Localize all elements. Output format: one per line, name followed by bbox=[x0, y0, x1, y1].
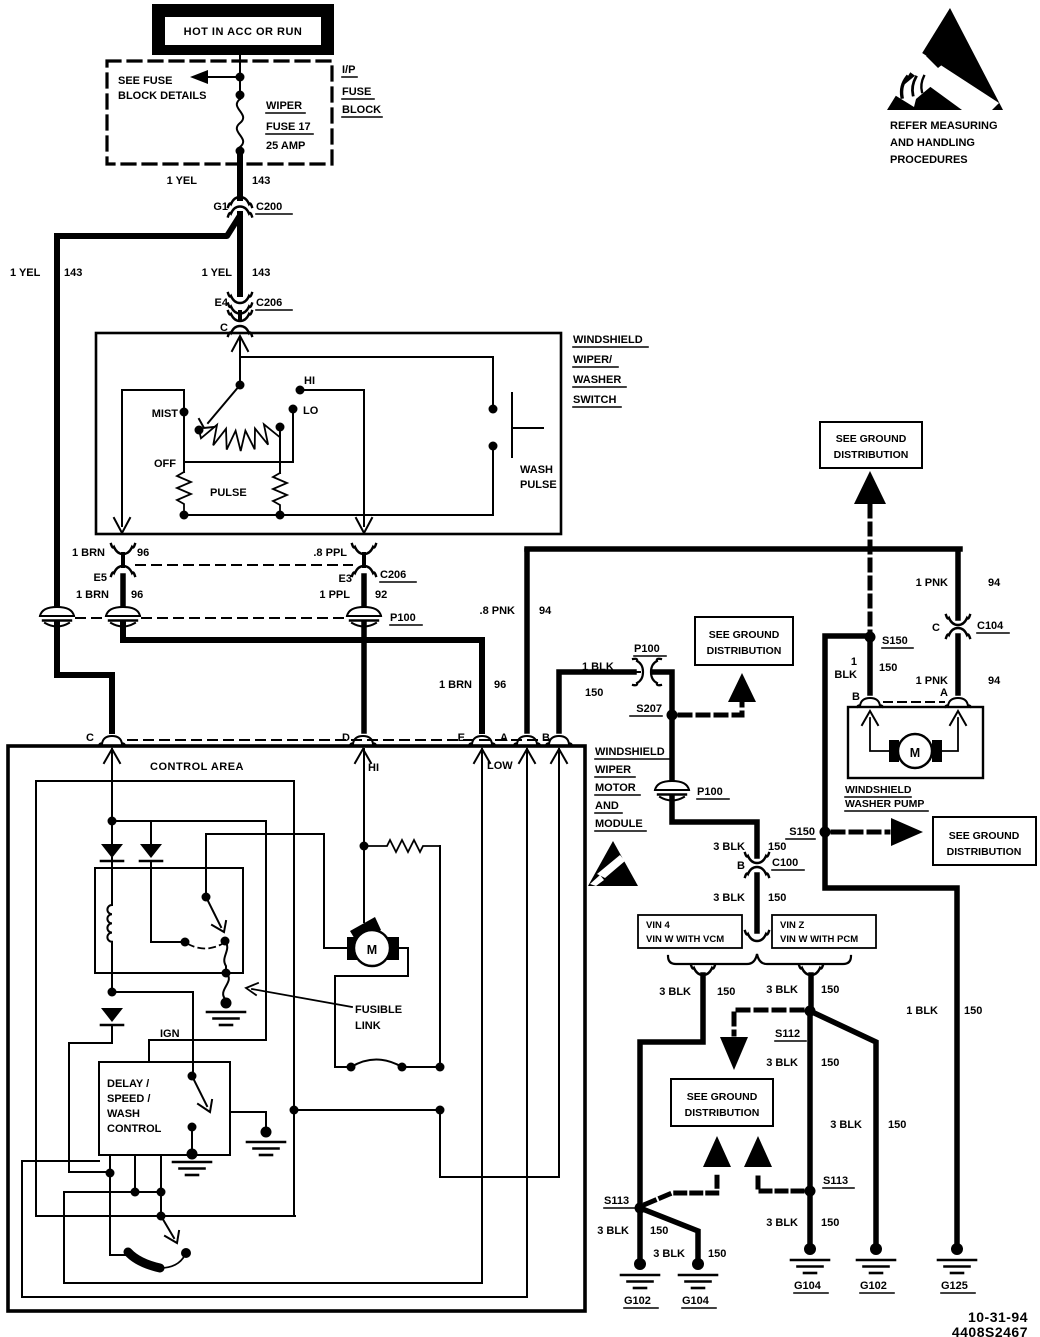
svg-text:LINK: LINK bbox=[355, 1020, 381, 1032]
svg-text:C206: C206 bbox=[380, 569, 406, 581]
svg-text:150: 150 bbox=[768, 892, 786, 904]
svg-text:1 YEL: 1 YEL bbox=[167, 175, 198, 187]
ESD warning symbol small bbox=[588, 841, 638, 886]
svg-text:G104: G104 bbox=[682, 1295, 710, 1307]
svg-text:IGN: IGN bbox=[160, 1028, 180, 1040]
wire S113 left diagonal to G104 bbox=[640, 1208, 698, 1258]
svg-text:WASHER: WASHER bbox=[573, 374, 621, 386]
delay switch contact bbox=[188, 1123, 197, 1132]
svg-text:150: 150 bbox=[964, 1005, 982, 1017]
node S112 bbox=[805, 1006, 816, 1017]
wire motor right brush loop bbox=[335, 948, 408, 1067]
svg-text:3 BLK: 3 BLK bbox=[653, 1248, 685, 1260]
dashed wire S113 to up arrow bbox=[758, 1171, 802, 1191]
VIN 4 box bbox=[638, 915, 742, 948]
wire to wash switch bbox=[240, 357, 493, 409]
svg-text:G102: G102 bbox=[624, 1295, 651, 1307]
dashed wire to S150 bbox=[868, 506, 873, 634]
dashed contact travel arc bbox=[188, 944, 222, 949]
wire S150 to pump B bbox=[867, 637, 873, 693]
svg-text:FUSIBLE: FUSIBLE bbox=[355, 1004, 402, 1016]
svg-text:3 BLK: 3 BLK bbox=[597, 1225, 629, 1237]
wire 1 PPL 92 bbox=[361, 576, 367, 607]
relay box bbox=[95, 868, 243, 973]
svg-text:150: 150 bbox=[821, 1217, 839, 1229]
svg-text:P100: P100 bbox=[390, 612, 416, 624]
wire big loop bbox=[293, 781, 295, 1216]
connector C200 terminal G1 bbox=[213, 197, 292, 217]
wire MIST to OFF bbox=[183, 412, 185, 472]
pump terminal B bbox=[857, 698, 883, 707]
wire HI to exit bbox=[300, 390, 364, 526]
wire S207 down bbox=[669, 715, 675, 783]
svg-text:3 BLK: 3 BLK bbox=[830, 1119, 862, 1131]
svg-text:CONTROL AREA: CONTROL AREA bbox=[150, 761, 244, 773]
ground G104 right bbox=[791, 1243, 829, 1293]
grommet P100 BRN wire bbox=[106, 607, 140, 627]
svg-text:OFF: OFF bbox=[154, 458, 176, 470]
svg-text:D: D bbox=[342, 732, 350, 744]
node S150 lower bbox=[820, 827, 831, 838]
wire diode D3 to delay stub bbox=[69, 1025, 112, 1172]
svg-text:DISTRIBUTION: DISTRIBUTION bbox=[685, 1107, 760, 1119]
svg-text:10-31-94: 10-31-94 bbox=[968, 1309, 1028, 1325]
wire E LOW return bbox=[64, 749, 482, 1283]
wire LO to OFF bus bbox=[292, 409, 294, 462]
node S150 bbox=[865, 632, 876, 643]
wire D2 to relay contact bbox=[151, 861, 181, 942]
svg-text:WINDSHIELD: WINDSHIELD bbox=[573, 334, 643, 346]
hook VIN4 wire bbox=[691, 965, 715, 975]
wash pulse actuator bbox=[512, 393, 543, 457]
svg-text:150: 150 bbox=[708, 1248, 726, 1260]
svg-text:3 BLK: 3 BLK bbox=[766, 984, 798, 996]
svg-text:WINDSHIELD: WINDSHIELD bbox=[595, 746, 665, 758]
svg-text:SEE GROUND: SEE GROUND bbox=[949, 830, 1020, 842]
connector E5 bbox=[94, 544, 135, 584]
terminal C bbox=[99, 736, 125, 745]
svg-text:96: 96 bbox=[137, 547, 149, 559]
node HI bbox=[296, 386, 305, 395]
svg-text:WINDSHIELD: WINDSHIELD bbox=[845, 784, 912, 796]
wire C branch to terminal C bbox=[57, 624, 112, 731]
pump feed arrows bbox=[862, 711, 878, 725]
wire delay to ground right bbox=[230, 1112, 266, 1132]
wire 1 PNK 94 lower bbox=[955, 636, 961, 693]
wash cam lobe bbox=[128, 1252, 160, 1268]
wire C feed inside control area bbox=[111, 749, 113, 844]
park switch arc bbox=[351, 1060, 402, 1068]
svg-text:FUSE 17: FUSE 17 bbox=[266, 121, 311, 133]
node wash switch contact bbox=[181, 1248, 191, 1258]
svg-text:M: M bbox=[367, 943, 377, 957]
grommet P100 PPL wire bbox=[347, 607, 381, 627]
svg-text:HI: HI bbox=[304, 375, 315, 387]
svg-text:B: B bbox=[737, 860, 745, 872]
wash pulse switch contacts bbox=[489, 405, 498, 414]
wire 1 YEL 143 from fuse block bbox=[237, 151, 243, 198]
svg-text:VIN W WITH PCM: VIN W WITH PCM bbox=[780, 934, 858, 945]
svg-text:C104: C104 bbox=[977, 620, 1004, 632]
dashed connector face line C-B bbox=[128, 739, 550, 741]
svg-text:94: 94 bbox=[539, 605, 552, 617]
svg-text:LOW: LOW bbox=[487, 760, 513, 772]
exit arrow HI wire bbox=[356, 518, 372, 533]
dashed wire S112 to ground arrow bbox=[734, 1010, 802, 1034]
svg-text:BLK: BLK bbox=[834, 669, 857, 681]
svg-text:WIPER/: WIPER/ bbox=[573, 354, 612, 366]
svg-text:150: 150 bbox=[768, 841, 786, 853]
node HI-resistor junction bbox=[360, 842, 369, 851]
up arrow right bbox=[744, 1136, 772, 1167]
terminal D bbox=[350, 736, 376, 745]
node park contact right bbox=[398, 1063, 407, 1072]
terminal B bbox=[546, 736, 572, 745]
svg-text:DISTRIBUTION: DISTRIBUTION bbox=[707, 645, 782, 657]
label FUSIBLE LINK with leader arrow bbox=[246, 983, 402, 1032]
svg-text:SPEED /: SPEED / bbox=[107, 1093, 150, 1105]
wire contact to ground bbox=[191, 1127, 193, 1154]
terminal arrow A inside bbox=[519, 749, 535, 763]
diode D2 bbox=[140, 821, 162, 861]
svg-text:1 YEL: 1 YEL bbox=[10, 267, 41, 279]
wire 3 BLK 150 below C100 bbox=[754, 875, 760, 931]
svg-text:WASH: WASH bbox=[520, 464, 553, 476]
exit arrow MIST bbox=[114, 518, 130, 533]
svg-text:C200: C200 bbox=[256, 201, 282, 213]
svg-text:P100: P100 bbox=[697, 786, 723, 798]
dashed connector line E5-E3 bbox=[136, 564, 352, 566]
svg-text:M: M bbox=[910, 746, 920, 760]
svg-text:G1: G1 bbox=[213, 201, 228, 213]
svg-text:MIST: MIST bbox=[152, 408, 179, 420]
wire S150 to BLK down branch bbox=[825, 636, 957, 1243]
svg-text:B: B bbox=[852, 691, 860, 703]
connector C104 bbox=[932, 551, 1009, 638]
junction dot bbox=[236, 73, 245, 82]
svg-text:1 BRN: 1 BRN bbox=[439, 679, 472, 691]
grommet P100 left wire bbox=[40, 607, 74, 627]
svg-text:96: 96 bbox=[131, 589, 143, 601]
wire 1 BRN 96 to terminal E bbox=[123, 624, 482, 731]
label I/P FUSE BLOCK bbox=[342, 64, 382, 117]
svg-text:E5: E5 bbox=[94, 572, 107, 584]
svg-text:1 PNK: 1 PNK bbox=[916, 675, 948, 687]
ground G102 right bbox=[857, 1243, 895, 1293]
svg-text:S207: S207 bbox=[636, 703, 662, 715]
dashed wire S207 to ground arrow bbox=[680, 704, 742, 715]
up arrow left bbox=[703, 1136, 731, 1167]
OFF bus bbox=[184, 461, 293, 463]
diode D1 bbox=[101, 844, 123, 868]
relay coil bbox=[107, 861, 112, 992]
svg-text:HOT IN ACC OR RUN: HOT IN ACC OR RUN bbox=[184, 26, 303, 38]
svg-text:143: 143 bbox=[64, 267, 82, 279]
svg-text:FUSE: FUSE bbox=[342, 86, 371, 98]
svg-text:G125: G125 bbox=[941, 1280, 968, 1292]
VIN Z box bbox=[772, 915, 876, 948]
svg-text:I/P: I/P bbox=[342, 64, 355, 76]
switch side terminal C bbox=[220, 311, 252, 336]
svg-text:150: 150 bbox=[888, 1119, 906, 1131]
svg-text:SEE GROUND: SEE GROUND bbox=[836, 433, 907, 445]
wire from HOT bus into fuse bbox=[239, 55, 241, 99]
svg-text:CONTROL: CONTROL bbox=[107, 1123, 162, 1135]
node stub 3 ign junction bbox=[106, 1169, 115, 1178]
diode D3 bbox=[101, 1008, 123, 1025]
svg-text:96: 96 bbox=[494, 679, 506, 691]
dashed wire S150 to ground distribution right bbox=[833, 830, 888, 835]
brace bbox=[668, 954, 851, 964]
svg-text:94: 94 bbox=[988, 577, 1001, 589]
dashed grommet line bbox=[76, 617, 104, 619]
wire resistor leg down bbox=[439, 846, 441, 1067]
svg-text:1 BRN: 1 BRN bbox=[76, 589, 109, 601]
relay switch arm bbox=[206, 897, 226, 932]
svg-text:S113: S113 bbox=[604, 1195, 629, 1207]
svg-text:150: 150 bbox=[717, 986, 735, 998]
wire to S207 bbox=[653, 672, 672, 715]
delay box stub 3 to cam bbox=[110, 1155, 126, 1255]
terminal A bbox=[514, 736, 540, 745]
node relay contact right bbox=[221, 937, 230, 946]
ground fusible link bbox=[207, 998, 245, 1026]
node relay contact left bbox=[181, 938, 190, 947]
windshield wiper/washer switch box bbox=[96, 333, 561, 534]
svg-text:.8 PNK: .8 PNK bbox=[480, 605, 516, 617]
node wash switch pivot bbox=[157, 1212, 166, 1221]
connector C100 terminal B bbox=[737, 853, 804, 877]
delay control box bbox=[99, 1062, 230, 1155]
wiper motor M bbox=[347, 846, 399, 966]
svg-text:G104: G104 bbox=[794, 1280, 822, 1292]
dashed pump connector face bbox=[884, 701, 944, 703]
svg-text:150: 150 bbox=[879, 662, 897, 674]
svg-text:PROCEDURES: PROCEDURES bbox=[890, 154, 968, 166]
ground G125 bbox=[938, 1243, 976, 1293]
see ground distribution box bottom bbox=[671, 1079, 773, 1126]
hook VINZ wire bbox=[799, 965, 823, 975]
wire 3 BLK 150 VIN4 to S113 bbox=[640, 975, 703, 1205]
resistor pulse right bbox=[279, 427, 281, 473]
svg-text:B: B bbox=[542, 732, 550, 744]
svg-text:P100: P100 bbox=[634, 643, 660, 655]
see ground distribution box S207 bbox=[695, 617, 793, 665]
node below relay bbox=[108, 988, 117, 997]
svg-text:REFER MEASURING: REFER MEASURING bbox=[890, 120, 998, 132]
fuse WIPER FUSE 17 25 AMP bbox=[237, 99, 243, 147]
svg-text:A: A bbox=[500, 732, 508, 744]
wire 1 BRN 96 bbox=[120, 576, 126, 607]
washer pump motor bbox=[889, 734, 942, 768]
svg-text:SWITCH: SWITCH bbox=[573, 394, 616, 406]
svg-text:A: A bbox=[940, 687, 948, 699]
I/P fuse block dashed box bbox=[107, 61, 332, 164]
svg-text:DELAY /: DELAY / bbox=[107, 1078, 149, 1090]
svg-text:3 BLK: 3 BLK bbox=[659, 986, 691, 998]
see ground distribution box right bbox=[933, 817, 1036, 865]
pump terminal A bbox=[945, 698, 971, 707]
wire S112 to S113 bbox=[807, 1011, 813, 1188]
delay box stub 1 bbox=[134, 1155, 136, 1192]
terminal arrow D inside bbox=[355, 749, 371, 763]
node C feed junction bbox=[108, 817, 117, 826]
node MIST bbox=[180, 408, 189, 417]
svg-text:SEE GROUND: SEE GROUND bbox=[709, 629, 780, 641]
svg-text:WASHER PUMP: WASHER PUMP bbox=[845, 798, 924, 810]
svg-text:VIN W WITH VCM: VIN W WITH VCM bbox=[646, 934, 724, 945]
svg-text:C: C bbox=[932, 622, 940, 634]
wire S113 left to G102 bbox=[637, 1208, 643, 1258]
node LO bbox=[289, 405, 298, 414]
svg-text:150: 150 bbox=[821, 1057, 839, 1069]
wire B terminal loop bbox=[440, 749, 559, 1177]
connector P100 inline bbox=[633, 659, 661, 686]
wire 3 BLK 150 VINZ to S112 bbox=[808, 975, 814, 1008]
wire D HI feed bbox=[363, 749, 365, 846]
resistor shunt bbox=[364, 840, 440, 852]
svg-text:E3: E3 bbox=[339, 573, 352, 585]
bottom bus of switch bbox=[184, 514, 493, 516]
node stub 2 bbox=[157, 1188, 166, 1197]
svg-text:1 PNK: 1 PNK bbox=[916, 577, 948, 589]
wire A terminal to delay box bbox=[22, 749, 527, 1297]
dashed wire S113 left to up arrow bbox=[646, 1171, 717, 1204]
ground delay box bbox=[173, 1149, 211, 1176]
arrow to fuse block details bbox=[190, 70, 240, 84]
node left loop junction bbox=[290, 1106, 299, 1115]
node wiper contact bbox=[195, 426, 204, 435]
arrow up to ground distribution bbox=[854, 471, 886, 504]
wire 3 BLK 150 to C100 bbox=[672, 798, 757, 856]
svg-text:92: 92 bbox=[375, 589, 387, 601]
svg-text:1 BRN: 1 BRN bbox=[72, 547, 105, 559]
svg-text:BLOCK: BLOCK bbox=[342, 104, 381, 116]
fusible link wire bbox=[224, 941, 227, 973]
delay box stub 2 bbox=[160, 1155, 162, 1216]
svg-text:S150: S150 bbox=[882, 635, 908, 647]
node S113 left bbox=[635, 1203, 646, 1214]
wire 1 PPL to terminal D bbox=[361, 624, 367, 731]
svg-text:WIPER: WIPER bbox=[266, 100, 302, 112]
svg-text:SEE GROUND: SEE GROUND bbox=[687, 1091, 758, 1103]
svg-text:HI: HI bbox=[368, 762, 379, 774]
svg-text:S112: S112 bbox=[775, 1028, 800, 1040]
svg-text:E: E bbox=[458, 732, 465, 744]
svg-text:AND HANDLING: AND HANDLING bbox=[890, 137, 975, 149]
svg-text:.8 PPL: .8 PPL bbox=[313, 547, 347, 559]
switch feed wire with up arrow bbox=[232, 336, 248, 385]
svg-text:94: 94 bbox=[988, 675, 1001, 687]
node on relay box edge bbox=[222, 969, 231, 978]
svg-text:SEE FUSE: SEE FUSE bbox=[118, 75, 172, 87]
svg-text:WIPER: WIPER bbox=[595, 764, 631, 776]
node track end bbox=[276, 423, 285, 432]
ESD warning symbol large bbox=[887, 8, 1003, 110]
svg-text:WASH: WASH bbox=[107, 1108, 140, 1120]
terminal E bbox=[469, 736, 495, 745]
delay switch arm bbox=[192, 1076, 212, 1112]
svg-text:E4: E4 bbox=[215, 297, 229, 309]
grommet P100 module bbox=[655, 781, 689, 801]
rheostat track MIST-OFF bbox=[199, 424, 280, 451]
wire 1 YEL 143 to C206 bbox=[237, 214, 243, 294]
resistor pulse left bbox=[177, 472, 191, 515]
wire PNK bus top bbox=[527, 546, 960, 552]
svg-text:MOTOR: MOTOR bbox=[595, 782, 636, 794]
svg-text:143: 143 bbox=[252, 175, 270, 187]
control area box bbox=[8, 746, 585, 1311]
terminal arrow C inside bbox=[104, 749, 120, 763]
svg-text:C206: C206 bbox=[256, 297, 282, 309]
node relay common bbox=[202, 893, 211, 902]
svg-text:150: 150 bbox=[650, 1225, 668, 1237]
node stub 1 bbox=[131, 1188, 140, 1197]
svg-text:150: 150 bbox=[821, 984, 839, 996]
label WINDSHIELD WIPER/ WASHER SWITCH bbox=[573, 334, 648, 407]
svg-text:3 BLK: 3 BLK bbox=[713, 841, 745, 853]
connector E3 C206 bbox=[339, 544, 416, 585]
ground G104 left bbox=[679, 1258, 717, 1308]
svg-text:3 BLK: 3 BLK bbox=[713, 892, 745, 904]
svg-text:3 BLK: 3 BLK bbox=[766, 1217, 798, 1229]
svg-text:143: 143 bbox=[252, 267, 270, 279]
wire S113 right to G104 bbox=[807, 1191, 813, 1243]
wire 1 BLK 150 to terminal B bbox=[559, 672, 634, 731]
svg-text:S113: S113 bbox=[823, 1175, 848, 1187]
delay switch common bbox=[188, 1072, 197, 1081]
svg-text:3 BLK: 3 BLK bbox=[766, 1057, 798, 1069]
svg-text:DISTRIBUTION: DISTRIBUTION bbox=[834, 449, 909, 461]
svg-text:1 BLK: 1 BLK bbox=[582, 661, 614, 673]
node S113 right bbox=[805, 1186, 816, 1197]
fusible link bbox=[223, 973, 229, 1000]
ground G102 left bbox=[621, 1258, 659, 1308]
label WINDSHIELD WASHER PUMP bbox=[845, 784, 928, 811]
wash switch arm bbox=[161, 1216, 179, 1243]
svg-text:1 BLK: 1 BLK bbox=[906, 1005, 938, 1017]
wire MIST to exit bbox=[122, 390, 184, 526]
power label box: HOT IN ACC OR RUN bbox=[152, 4, 334, 55]
wire to delay switch bbox=[112, 992, 193, 1076]
terminal arrow E inside bbox=[474, 749, 490, 763]
svg-text:1 PPL: 1 PPL bbox=[319, 589, 350, 601]
wire relay feed from motor bus bbox=[206, 834, 348, 948]
node crossover bbox=[436, 1106, 445, 1115]
washer pump box bbox=[848, 707, 983, 778]
cam follower curve bbox=[160, 1255, 185, 1268]
wire 1 BLK 150 into S207 bbox=[634, 671, 640, 673]
wire ignition branch bbox=[112, 821, 266, 1062]
svg-text:VIN 4: VIN 4 bbox=[646, 920, 670, 931]
ground mid bbox=[247, 1127, 285, 1156]
svg-text:G102: G102 bbox=[860, 1280, 887, 1292]
wire .8 PNK 94 to terminal A bbox=[524, 551, 530, 731]
svg-text:MODULE: MODULE bbox=[595, 818, 643, 830]
rotary wiper arm bbox=[199, 385, 240, 428]
svg-text:C100: C100 bbox=[772, 857, 798, 869]
svg-text:S150: S150 bbox=[789, 826, 815, 838]
node park contact left bbox=[347, 1063, 356, 1072]
terminal arrow B inside bbox=[551, 749, 567, 763]
svg-text:1: 1 bbox=[851, 656, 857, 668]
connector C206 terminal E4 bbox=[215, 293, 292, 314]
svg-text:4408S2467: 4408S2467 bbox=[952, 1324, 1028, 1337]
node S207 bbox=[667, 710, 678, 721]
wire S112 diagonal to G102 bbox=[810, 1011, 876, 1243]
node resistor leg park junction bbox=[436, 1063, 445, 1072]
wire crossover to left loop bbox=[294, 1109, 440, 1111]
